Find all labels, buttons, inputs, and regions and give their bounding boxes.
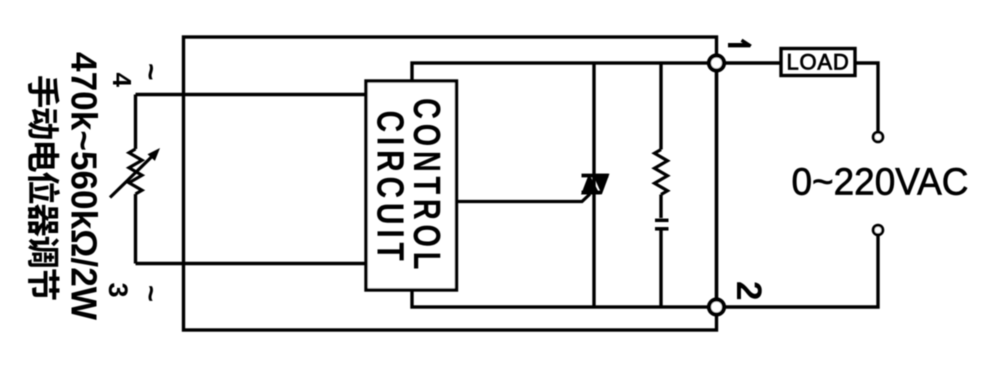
- terminal 1 junction circle: [709, 56, 724, 71]
- CJK char 手 (label text): [28, 76, 59, 107]
- control circuit box: [366, 81, 457, 290]
- svg-text:LOAD: LOAD: [786, 50, 849, 75]
- gate wire from control circuit to triac: [457, 194, 591, 202]
- potentiometer RP1 zigzag body: [129, 149, 142, 194]
- svg-text:2: 2: [729, 281, 768, 300]
- terminal 2 junction circle: [709, 300, 724, 315]
- label: terminal 1: [728, 40, 751, 46]
- svg-text:~: ~: [134, 285, 166, 302]
- CJK char 电 (label text): [28, 143, 59, 172]
- snubber branch bottom wire: [659, 230, 662, 308]
- wire LOAD to AC source top: [855, 63, 878, 132]
- AC source terminal bottom circle: [873, 225, 883, 235]
- triac main vertical wire (upper): [592, 63, 595, 174]
- svg-text:~: ~: [134, 63, 167, 81]
- outer module rectangle: [184, 37, 717, 330]
- resistor R1 (snubber) zigzag: [655, 150, 668, 195]
- CJK char 调 (label text): [28, 237, 59, 267]
- capacitor C1 (snubber) plates: [655, 219, 669, 223]
- svg-text:470k~560kΩ/2W: 470k~560kΩ/2W: [64, 52, 105, 320]
- svg-text:CIRCUIT: CIRCUIT: [369, 111, 411, 266]
- CJK char 器 (label text): [28, 204, 58, 236]
- CJK char 位 (label text): [28, 172, 60, 203]
- svg-text:0~220VAC: 0~220VAC: [792, 162, 969, 204]
- svg-text:4: 4: [107, 73, 137, 88]
- wire: potentiometer bottom lead: [134, 194, 137, 264]
- LOAD box: [781, 49, 855, 76]
- wire: potentiometer top lead: [134, 95, 137, 150]
- triac Q1 symbol triangles: [581, 174, 610, 195]
- wire AC source bottom to terminal 2: [724, 235, 879, 307]
- wire: terminal 3 to control circuit (bottom input): [136, 262, 367, 265]
- triac main vertical wire (lower): [592, 174, 595, 307]
- wire resistor to capacitor: [659, 195, 662, 219]
- wire: terminal 4 to control circuit (top input): [136, 93, 367, 96]
- snubber branch top wire: [659, 63, 662, 150]
- wire terminal1 to LOAD: [724, 61, 781, 64]
- AC source terminal top circle: [873, 132, 883, 142]
- inner rectangle (output section): [412, 63, 717, 307]
- potentiometer wiper arrow: [110, 156, 153, 198]
- CJK char 动 (label text): [28, 109, 59, 139]
- svg-text:3: 3: [103, 283, 133, 298]
- CJK char 节 (label text): [28, 269, 59, 299]
